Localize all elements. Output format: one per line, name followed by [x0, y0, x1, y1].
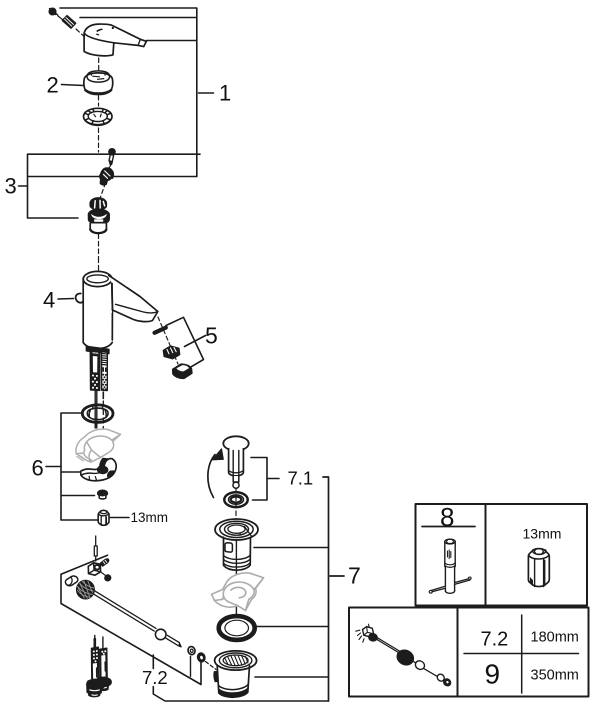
wire dashed spout to aerator parts [158, 317, 178, 364]
table inner vertical divider [521, 615, 523, 693]
cartridge screw [109, 149, 115, 165]
svg-text:4: 4 [43, 288, 55, 313]
label 6 leader [46, 466, 61, 468]
drain flange [215, 519, 258, 570]
wire centerline cartridge down [98, 234, 100, 258]
aerator housing [173, 364, 192, 378]
svg-text:5: 5 [205, 323, 218, 349]
label 8 underline [422, 526, 475, 528]
bracket 5 [166, 317, 204, 367]
hook pin on left [76, 293, 83, 302]
bracket 6 [61, 413, 98, 520]
wire centerline handle to ring [98, 58, 100, 70]
leader 7.2 vertical through label [153, 655, 328, 701]
bracket 7.1 [251, 458, 267, 501]
tick flange to bracket [254, 547, 329, 549]
small o-ring white [188, 647, 195, 655]
wire dashed knob to flange [235, 489, 237, 520]
rod drawing in table [356, 624, 451, 686]
bracket 1 lines [60, 8, 197, 177]
label 5 leader [185, 336, 206, 347]
svg-text:3: 3 [5, 174, 17, 199]
label 2 leader [62, 85, 84, 86]
label 7 leader [330, 575, 344, 577]
wire dashed valve to cartridge [101, 183, 106, 197]
ghost mounting cone [76, 429, 121, 462]
13mm hex adapter [98, 510, 109, 525]
lift rod upper [95, 391, 97, 429]
small seal ring dark [198, 653, 205, 662]
label 4 leader [58, 298, 74, 301]
pivot pin top [95, 536, 97, 546]
non-return valve [100, 168, 114, 185]
ghost spring clip [212, 573, 264, 611]
svg-text:180mm: 180mm [531, 630, 579, 646]
wire dashed leader pin to handle [76, 29, 89, 41]
lever handle [84, 24, 146, 56]
13mm label leader [110, 517, 129, 519]
svg-text:13mm: 13mm [131, 510, 169, 525]
aerator gasket [155, 328, 166, 333]
svg-text:13mm: 13mm [523, 526, 562, 542]
wire dashed leader screw to pin [58, 16, 63, 20]
tick ring1 to bracket edge [190, 657, 192, 677]
label 1 leader [199, 92, 214, 94]
svg-text:7: 7 [348, 563, 361, 589]
aerator insert [164, 346, 180, 358]
pivot nut [105, 575, 110, 581]
rod ball joint [155, 629, 166, 640]
wire clamp to nut [101, 572, 106, 576]
clamp block [88, 563, 100, 575]
tick o-ring to bracket [256, 626, 329, 628]
lift rod lower (long diagonal) [92, 591, 181, 647]
svg-text:350mm: 350mm [531, 668, 579, 684]
pin (handle pin) [63, 16, 76, 28]
bearing ring part [84, 108, 113, 125]
rotate arrow [208, 449, 223, 498]
screw (handle fixing screw) [49, 8, 58, 15]
svg-text:9: 9 [485, 659, 501, 690]
tick drain body to bracket [255, 676, 329, 678]
ball knob [77, 581, 94, 599]
joint cylinder [65, 576, 77, 586]
svg-text:2: 2 [47, 73, 59, 98]
label 3 leader [19, 185, 28, 187]
small nut [98, 490, 108, 499]
cap ring part 2 [84, 71, 113, 95]
svg-text:7.1: 7.1 [288, 468, 314, 489]
table horizontal divider [464, 653, 579, 655]
horseshoe washer [81, 458, 117, 481]
wire dashed ring to drain body [206, 662, 217, 670]
svg-text:7.2: 7.2 [481, 629, 509, 651]
wire centerline bearing down [98, 128, 100, 152]
svg-text:6: 6 [32, 456, 44, 481]
svg-text:1: 1 [219, 81, 231, 106]
wire centerline ring to bearing [98, 96, 100, 107]
threaded shanks under body [87, 347, 109, 391]
cartridge [88, 198, 109, 233]
escutcheon rosette [82, 405, 113, 422]
bracket 3 [28, 154, 201, 218]
label 7.1 leader [267, 478, 279, 480]
twin mounting studs [87, 636, 111, 697]
wire centerline flange down [235, 540, 237, 614]
pop-up plug knob [223, 436, 248, 488]
wire centerline into body [98, 258, 100, 272]
hex socket 13mm [528, 549, 549, 587]
table frame [349, 608, 589, 697]
svg-text:8: 8 [440, 502, 454, 532]
wire dashed screw to valve [109, 166, 111, 170]
faucet body [76, 271, 158, 348]
lift rod through rosette [95, 405, 97, 428]
bracket 7 vertical [323, 477, 329, 701]
drain body [214, 651, 257, 697]
mounting tool [429, 539, 471, 593]
clamp screw [100, 559, 109, 566]
bracket 7.2 assembly box [61, 555, 201, 684]
svg-text:7.2: 7.2 [142, 667, 168, 688]
seal washer 7.1 [224, 492, 247, 507]
o-ring [219, 616, 255, 640]
box 8 frame [416, 504, 588, 606]
